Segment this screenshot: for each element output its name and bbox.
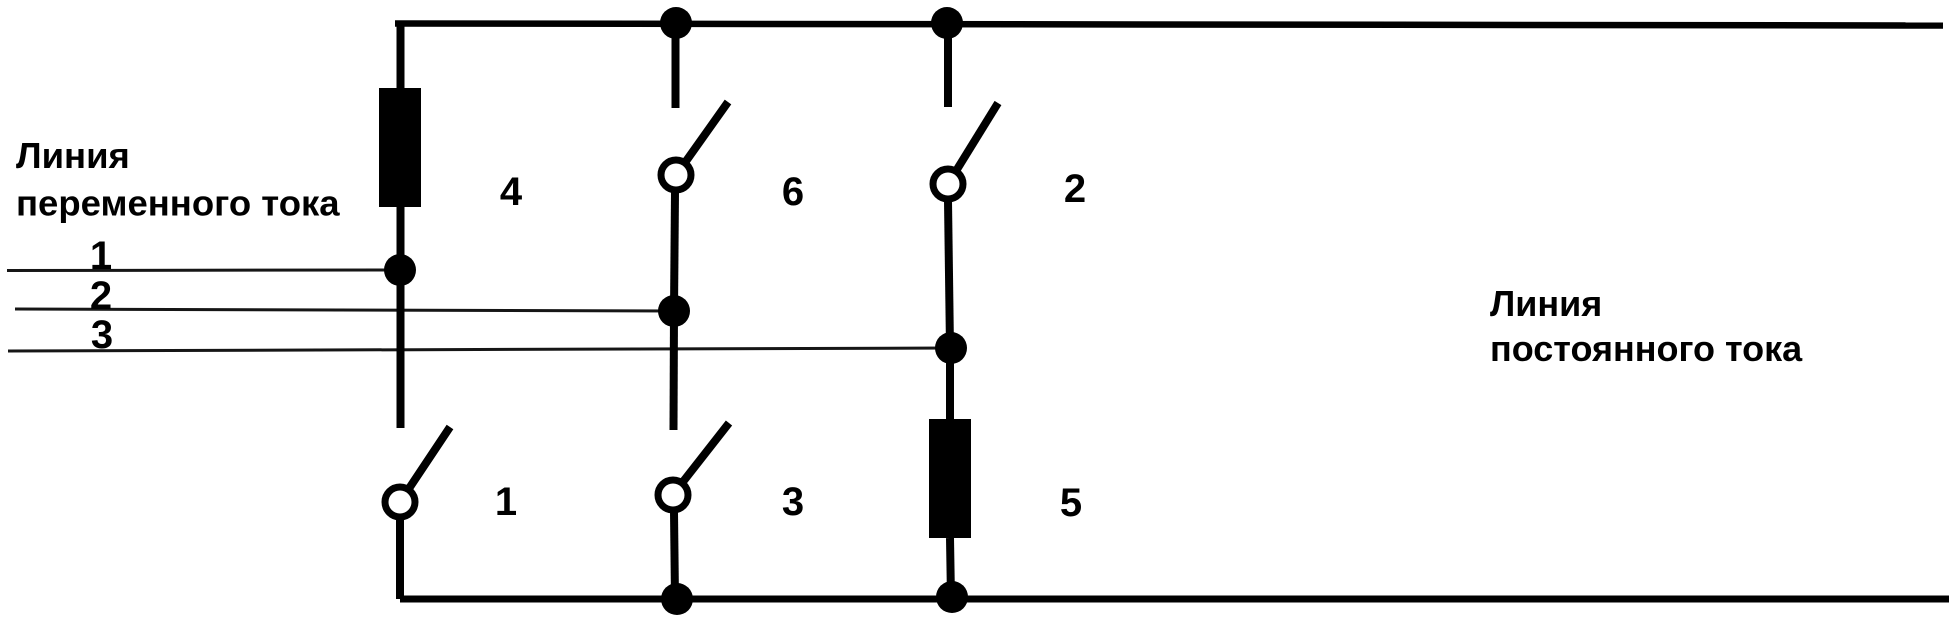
switch 3 (disconnector, branch B bottom) xyxy=(658,423,729,510)
svg-text:4: 4 xyxy=(500,170,523,214)
svg-text:Линия: Линия xyxy=(1490,283,1602,324)
resistor 5 (ballast resistor, branch C) xyxy=(929,419,971,538)
svg-text:Линия: Линия xyxy=(16,135,130,176)
wire: branch C bottom segment (resistor 5 to bottom bus) xyxy=(950,538,951,599)
wire: branch A top segment (top bus corner down to resistor 4) xyxy=(397,23,405,93)
node: branch C on top DC bus xyxy=(931,7,963,39)
wire: bottom DC bus xyxy=(400,596,1949,603)
svg-text:6: 6 xyxy=(782,170,804,214)
node: junction of phase line 2 with branch B xyxy=(658,295,690,327)
wire: branch A bottom segment (switch 1 to bottom bus) xyxy=(396,519,404,599)
svg-text:переменного тока: переменного тока xyxy=(16,183,340,224)
switch 6 (disconnector, branch B top) xyxy=(661,102,728,190)
wire: AC phase line 1 xyxy=(7,269,400,273)
switch 2 (disconnector, branch C top) xyxy=(933,103,998,199)
wire: branch A middle segment (resistor 4 to switch 1) xyxy=(397,207,405,428)
svg-text:3: 3 xyxy=(782,480,804,524)
wire: branch B top segment (top bus to switch 6) xyxy=(672,23,680,108)
wire: branch B middle segment (switch 6 to phase line 2 junction) xyxy=(674,192,675,311)
svg-text:постоянного тока: постоянного тока xyxy=(1490,328,1803,369)
wire: branch C top segment (top bus to switch 2) xyxy=(944,23,952,107)
resistor 4 (ballast resistor, branch A) xyxy=(379,88,421,207)
wire: branch B segment (junction down to switch 3) xyxy=(670,311,679,430)
svg-text:2: 2 xyxy=(90,274,112,318)
wire: AC phase line 3 xyxy=(8,348,951,351)
svg-text:1: 1 xyxy=(90,234,112,278)
wire: top DC bus xyxy=(395,24,1943,26)
label: AC line caption "Линия переменного тока" xyxy=(16,135,340,224)
node: branch B on top DC bus xyxy=(660,7,692,39)
node: branch B on bottom DC bus xyxy=(661,583,693,615)
label: DC line caption "Линия постоянного тока" xyxy=(1490,283,1803,369)
wire: branch B bottom segment (switch 3 to bottom bus) xyxy=(674,512,675,599)
node: branch C on bottom DC bus xyxy=(936,581,968,613)
svg-text:2: 2 xyxy=(1064,167,1086,211)
wire: branch C segment (junction down to resistor 5) xyxy=(946,348,954,423)
svg-text:5: 5 xyxy=(1060,481,1082,525)
switch 1 (disconnector, branch A bottom) xyxy=(385,427,450,517)
node: junction of phase line 1 with branch A xyxy=(384,254,416,286)
wire: branch C middle segment (switch 2 to phase line 3 junction) xyxy=(948,201,950,348)
svg-text:1: 1 xyxy=(495,480,517,524)
node: junction of phase line 3 with branch C xyxy=(935,332,967,364)
svg-text:3: 3 xyxy=(91,313,113,357)
wire: AC phase line 2 xyxy=(15,309,674,311)
